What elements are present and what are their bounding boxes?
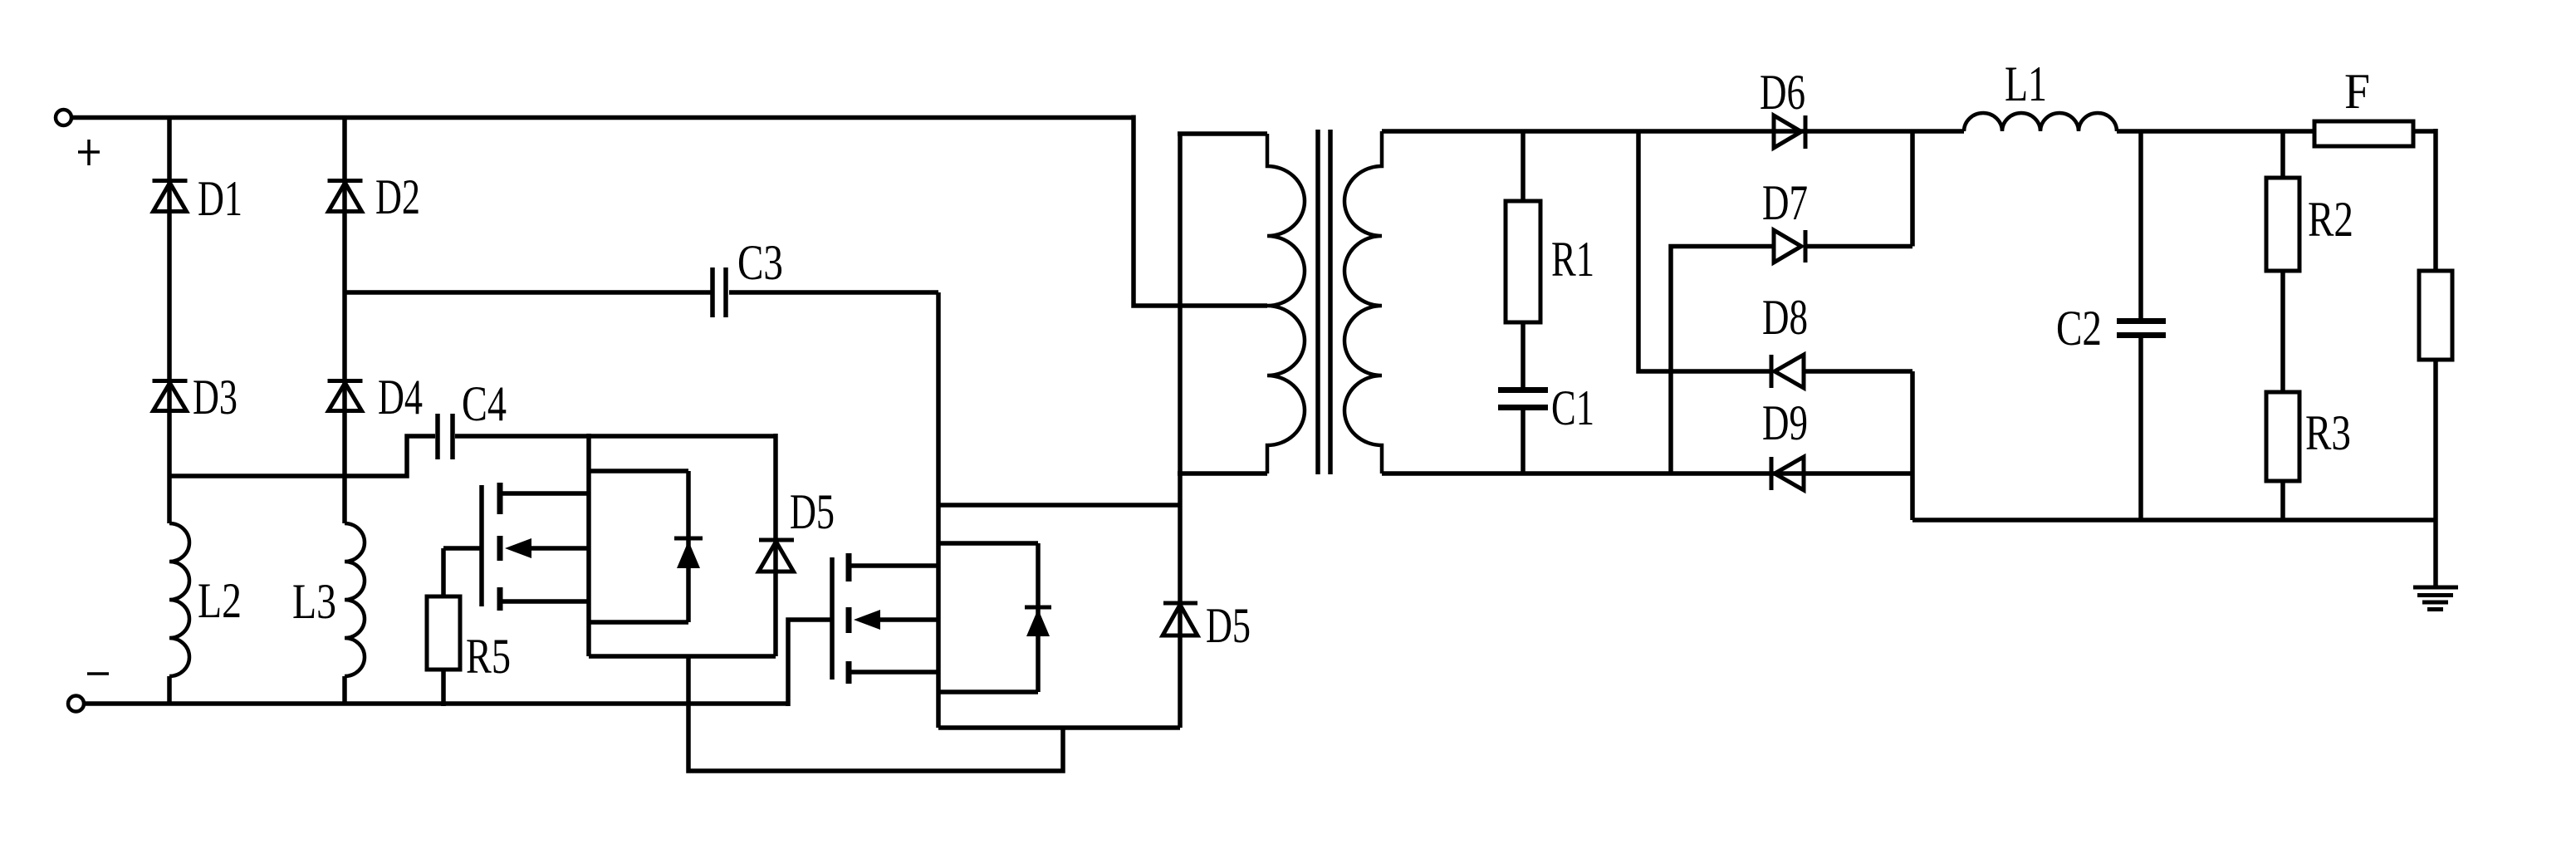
wire D2-D4-L3 column	[342, 118, 347, 524]
wire rail after L1	[2117, 129, 2314, 134]
capacitor C1	[1498, 390, 1548, 474]
diode D8	[1771, 355, 1912, 388]
wire Q1 right column	[586, 434, 591, 656]
resistor R5	[427, 548, 460, 706]
svg-text:R5: R5	[466, 629, 511, 684]
node + input terminal	[56, 110, 100, 165]
svg-text:R3: R3	[2305, 405, 2351, 460]
inductor L1	[1964, 113, 2117, 131]
diode D1	[153, 181, 188, 212]
transistor Q1	[482, 483, 589, 611]
svg-text:R1: R1	[1551, 232, 1594, 287]
wire primary bottom terminal	[1178, 471, 1267, 476]
wire secondary bottom rail	[1382, 471, 1912, 476]
wire Q2 box top	[938, 541, 1038, 546]
transistor Q2	[832, 553, 938, 684]
wire L3 bottom	[342, 676, 347, 704]
diode D4	[328, 381, 363, 411]
wire Q1 anode rail	[589, 654, 776, 659]
wire D8 dropper	[1910, 371, 1915, 520]
wire output bottom rail	[1912, 518, 2436, 523]
resistor R1	[1506, 131, 1540, 387]
diode Q1 body	[674, 471, 703, 622]
diode D6	[1774, 115, 1805, 149]
svg-text:L2: L2	[198, 573, 242, 628]
node - input terminal	[68, 674, 109, 712]
transformer T1 core	[1318, 130, 1330, 474]
svg-text:C2: C2	[2056, 301, 2102, 356]
diode Q2 body	[1025, 543, 1051, 692]
resistor load	[2419, 129, 2452, 520]
diode D3	[153, 381, 188, 411]
wire Q2 gate riser	[788, 620, 832, 706]
wire Q2 link	[938, 503, 1180, 508]
wire C4 to D5 top	[455, 434, 776, 439]
resistor R2	[2266, 131, 2299, 392]
wire D1-D3-L2 column	[167, 118, 172, 524]
wire Q2 box bottom	[938, 689, 1038, 694]
diode D5 first	[759, 434, 795, 656]
wire gate link	[688, 656, 1063, 771]
wire primary left column	[1178, 134, 1183, 728]
wire primary top terminal	[1178, 131, 1267, 136]
wire to transformer center tap	[1134, 115, 1267, 307]
capacitor C2	[2117, 131, 2166, 520]
svg-text:C1: C1	[1551, 380, 1594, 435]
wire L2 bottom	[167, 676, 172, 704]
wire bridge mid to C4	[169, 436, 435, 476]
svg-text:D5: D5	[790, 484, 835, 539]
svg-text:D2: D2	[375, 169, 420, 224]
svg-text:D5: D5	[1206, 598, 1251, 653]
wire secondary top rail	[1382, 129, 1964, 134]
svg-text:D3: D3	[193, 370, 238, 424]
svg-text:D1: D1	[198, 171, 242, 226]
wire D7 riser	[1910, 131, 1915, 247]
wire Q2 bottom	[938, 725, 1180, 730]
svg-text:D4: D4	[378, 370, 423, 424]
transformer T1 secondary winding	[1344, 131, 1382, 474]
ground	[2413, 520, 2458, 610]
wire C3 right	[729, 290, 938, 295]
capacitor C3	[713, 267, 726, 317]
wire Q1 gate lead	[443, 546, 482, 551]
wire Q1 box top	[589, 469, 688, 474]
wire D7 feeder	[1671, 247, 1774, 474]
svg-text:D7: D7	[1762, 175, 1808, 230]
wire bottom rail	[84, 701, 788, 706]
svg-text:F: F	[2344, 64, 2370, 119]
svg-text:D6: D6	[1760, 65, 1805, 120]
capacitor C4	[438, 414, 453, 459]
diode D9	[1771, 457, 1804, 490]
wire top rail	[71, 115, 1134, 120]
fuse F	[2314, 121, 2436, 146]
diode D5 second	[1163, 603, 1197, 635]
svg-text:D8: D8	[1762, 290, 1808, 345]
diode D7	[1774, 230, 1912, 263]
wire C3 left	[345, 290, 711, 295]
inductor L3	[345, 523, 365, 676]
wire D8 feeder	[1638, 131, 1771, 371]
svg-text:R2: R2	[2308, 192, 2353, 247]
wire Q2 left column	[936, 292, 941, 728]
diode D2	[328, 181, 363, 212]
svg-text:D9: D9	[1762, 395, 1808, 450]
svg-text:L3: L3	[292, 574, 336, 629]
svg-text:C3: C3	[737, 235, 783, 290]
svg-text:C4: C4	[462, 376, 507, 431]
svg-text:L1: L1	[2005, 56, 2047, 111]
wire Q1 box bottom	[589, 620, 688, 625]
resistor R3	[2266, 392, 2299, 520]
inductor L2	[169, 523, 189, 676]
transformer T1 primary winding	[1267, 134, 1305, 474]
